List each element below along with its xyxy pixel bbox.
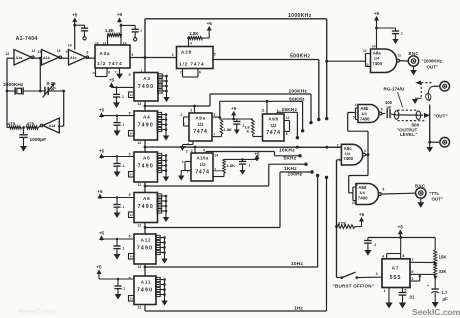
svg-text:13: 13 — [5, 52, 9, 56]
svg-text:A12: A12 — [141, 238, 152, 243]
svg-text:LEVEL.": LEVEL." — [400, 132, 417, 137]
svg-text:6: 6 — [412, 270, 414, 274]
svg-text:14: 14 — [130, 255, 134, 259]
svg-text:"TTL: "TTL — [429, 191, 439, 196]
svg-text:5KHz: 5KHz — [284, 155, 297, 161]
svg-text:OUT": OUT" — [427, 64, 438, 69]
svg-text:100Hz: 100Hz — [288, 172, 303, 178]
svg-text:7400: 7400 — [358, 195, 368, 200]
svg-text:A1a: A1a — [16, 56, 24, 60]
svg-text:2: 2 — [180, 71, 182, 75]
svg-text:+5: +5 — [109, 78, 115, 83]
svg-text:555: 555 — [390, 275, 402, 281]
svg-text:1.8K: 1.8K — [190, 31, 199, 36]
svg-text:1.8K: 1.8K — [105, 28, 114, 33]
svg-text:A2b: A2b — [181, 50, 192, 55]
svg-text:OUT": OUT" — [432, 197, 443, 202]
svg-text:1Hz: 1Hz — [294, 306, 304, 312]
svg-text:11: 11 — [261, 109, 265, 113]
svg-text:500KHz: 500KHz — [290, 53, 311, 59]
svg-text:7490: 7490 — [137, 246, 153, 252]
svg-text:+5: +5 — [207, 21, 213, 26]
svg-text:A3: A3 — [143, 76, 150, 81]
svg-text:A5: A5 — [143, 156, 150, 161]
svg-text:9: 9 — [66, 50, 68, 54]
svg-text:+5: +5 — [99, 231, 105, 236]
svg-text:12: 12 — [138, 306, 142, 310]
svg-text:1/2: 1/2 — [198, 122, 204, 127]
svg-text:1.8K: 1.8K — [224, 127, 233, 132]
svg-text:5: 5 — [129, 277, 131, 281]
svg-text:K: K — [247, 130, 250, 134]
svg-text:470: 470 — [8, 121, 16, 126]
svg-text:SeekIC.com: SeekIC.com — [412, 307, 460, 317]
svg-text:.1: .1 — [122, 247, 125, 251]
svg-text:10Hz: 10Hz — [291, 261, 303, 267]
svg-text:5: 5 — [129, 235, 131, 239]
svg-text:13: 13 — [103, 41, 107, 45]
svg-text:µF: µF — [443, 297, 448, 302]
svg-text:A1d: A1d — [49, 124, 56, 128]
svg-text:2000KHz: 2000KHz — [3, 82, 24, 88]
svg-text:12: 12 — [32, 49, 36, 53]
svg-text:12: 12 — [363, 49, 367, 53]
svg-text:+5: +5 — [398, 225, 404, 230]
svg-text:7490: 7490 — [138, 123, 154, 129]
svg-text:6: 6 — [199, 71, 201, 75]
svg-text:8: 8 — [108, 71, 110, 75]
svg-text:7400: 7400 — [372, 61, 382, 66]
svg-text:A9a: A9a — [195, 116, 205, 121]
svg-text:100KHz: 100KHz — [289, 89, 308, 95]
svg-text:.1: .1 — [122, 164, 125, 168]
svg-text:+5: +5 — [99, 149, 105, 154]
svg-text:7: 7 — [412, 258, 414, 262]
svg-text:2: 2 — [412, 277, 414, 281]
svg-text:.01: .01 — [409, 295, 415, 300]
svg-text:8: 8 — [383, 188, 385, 192]
svg-text:7400: 7400 — [343, 156, 353, 161]
svg-text:3: 3 — [364, 149, 366, 153]
svg-text:11: 11 — [37, 50, 41, 54]
svg-text:BNC: BNC — [415, 183, 426, 188]
svg-text:1000KHz: 1000KHz — [288, 13, 312, 19]
svg-text:14: 14 — [123, 41, 127, 45]
svg-text:A1-7404: A1-7404 — [16, 36, 38, 42]
svg-text:A4: A4 — [143, 115, 150, 120]
svg-text:5: 5 — [203, 149, 205, 153]
svg-text:+5: +5 — [97, 189, 103, 194]
svg-text:1: 1 — [384, 289, 386, 293]
svg-text:470: 470 — [27, 121, 35, 126]
svg-text:A2a: A2a — [100, 51, 111, 56]
svg-text:1/2: 1/2 — [271, 123, 277, 128]
svg-text:3: 3 — [376, 272, 378, 276]
svg-text:4: 4 — [382, 255, 384, 259]
svg-text:1/2 7474: 1/2 7474 — [97, 61, 122, 66]
svg-text:+5: +5 — [374, 11, 380, 16]
svg-text:14: 14 — [215, 154, 219, 158]
svg-text:8: 8 — [403, 254, 405, 258]
svg-text:7474: 7474 — [195, 170, 209, 176]
svg-text:pF: pF — [51, 86, 57, 91]
svg-text:6: 6 — [381, 108, 383, 112]
svg-text:A1b: A1b — [43, 56, 51, 60]
svg-text:12: 12 — [92, 71, 96, 75]
svg-text:5: 5 — [214, 113, 216, 117]
svg-text:"1000KHz: "1000KHz — [422, 59, 443, 64]
svg-text:14: 14 — [130, 132, 134, 136]
svg-text:10KHz: 10KHz — [279, 148, 295, 154]
svg-text:4: 4 — [355, 103, 357, 107]
svg-text:1000pF: 1000pF — [30, 137, 47, 143]
svg-text:A6: A6 — [143, 196, 150, 201]
svg-text:5: 5 — [129, 193, 131, 197]
svg-text:14: 14 — [372, 45, 376, 49]
svg-text:+5: +5 — [72, 13, 78, 18]
svg-text:12: 12 — [138, 102, 142, 106]
svg-text:8: 8 — [86, 50, 88, 54]
svg-text:12: 12 — [138, 224, 142, 228]
svg-text:A11: A11 — [141, 280, 152, 285]
svg-text:5: 5 — [129, 73, 131, 77]
svg-text:14: 14 — [130, 213, 134, 217]
svg-text:14: 14 — [68, 43, 72, 47]
svg-text:12: 12 — [286, 116, 290, 120]
svg-text:14: 14 — [130, 93, 134, 97]
svg-text:2: 2 — [186, 150, 188, 154]
svg-text:RG-174/U: RG-174/U — [384, 87, 405, 92]
svg-text:.1: .1 — [121, 95, 124, 99]
svg-text:7474: 7474 — [193, 129, 207, 135]
svg-text:47K: 47K — [338, 221, 348, 226]
svg-text:+5: +5 — [359, 212, 365, 217]
svg-text:"OUT": "OUT" — [434, 114, 448, 119]
svg-text:A1c: A1c — [70, 56, 77, 60]
svg-text:.1: .1 — [140, 29, 143, 33]
svg-text:10: 10 — [57, 49, 61, 53]
svg-text:5: 5 — [214, 53, 216, 57]
svg-text:.1: .1 — [122, 205, 125, 209]
svg-text:3: 3 — [191, 149, 193, 153]
svg-text:.1: .1 — [122, 123, 125, 127]
svg-text:1.7: 1.7 — [442, 290, 448, 295]
svg-text:10: 10 — [352, 201, 356, 205]
svg-text:10: 10 — [95, 41, 99, 45]
svg-text:.1: .1 — [400, 32, 403, 36]
svg-text:1: 1 — [140, 69, 142, 73]
svg-text:5: 5 — [129, 153, 131, 157]
svg-text:SeekIC.com: SeekIC.com — [18, 309, 56, 316]
svg-text:12: 12 — [138, 265, 142, 269]
svg-text:+5: +5 — [117, 12, 123, 17]
svg-text:1.8K: 1.8K — [227, 163, 236, 168]
svg-text:14: 14 — [130, 173, 134, 177]
svg-text:15K: 15K — [439, 255, 448, 260]
svg-text:12: 12 — [138, 183, 142, 187]
svg-text:A10a: A10a — [196, 156, 208, 161]
svg-text:+: + — [427, 284, 429, 288]
svg-text:BNC: BNC — [409, 51, 420, 56]
svg-text:9: 9 — [277, 109, 279, 113]
svg-text:3: 3 — [190, 109, 192, 113]
svg-text:5: 5 — [353, 115, 355, 119]
svg-text:14: 14 — [130, 297, 134, 301]
svg-text:4: 4 — [190, 41, 192, 45]
svg-text:1/2: 1/2 — [200, 162, 206, 167]
svg-text:1/2 7474: 1/2 7474 — [179, 61, 204, 66]
svg-text:9: 9 — [132, 53, 134, 57]
svg-text:A7: A7 — [392, 266, 400, 272]
svg-text:5: 5 — [129, 112, 131, 116]
svg-text:+5: +5 — [96, 265, 102, 270]
svg-text:.1: .1 — [373, 243, 376, 247]
svg-text:11: 11 — [398, 54, 402, 58]
svg-text:+5: +5 — [231, 106, 237, 111]
svg-text:7490: 7490 — [138, 204, 154, 210]
svg-text:12: 12 — [138, 141, 142, 145]
svg-text:7474: 7474 — [266, 130, 280, 136]
svg-text:2: 2 — [337, 144, 339, 148]
svg-text:A9b: A9b — [268, 117, 278, 122]
svg-text:3: 3 — [172, 53, 174, 57]
svg-text:8: 8 — [286, 132, 288, 136]
svg-text:7490: 7490 — [137, 288, 153, 294]
svg-text:.1: .1 — [248, 164, 251, 168]
svg-text:2: 2 — [180, 113, 182, 117]
svg-text:7490: 7490 — [138, 164, 154, 170]
svg-text:+5: +5 — [99, 108, 105, 113]
svg-text:7400: 7400 — [360, 116, 370, 121]
svg-text:pF: pF — [387, 105, 392, 110]
svg-text:7490: 7490 — [138, 84, 154, 90]
svg-text:1KHz: 1KHz — [284, 166, 297, 172]
svg-text:33K: 33K — [439, 269, 448, 274]
svg-text:13: 13 — [365, 63, 369, 67]
svg-text:.1: .1 — [123, 287, 126, 291]
svg-text:"BURST OFF/ON": "BURST OFF/ON" — [333, 283, 375, 288]
